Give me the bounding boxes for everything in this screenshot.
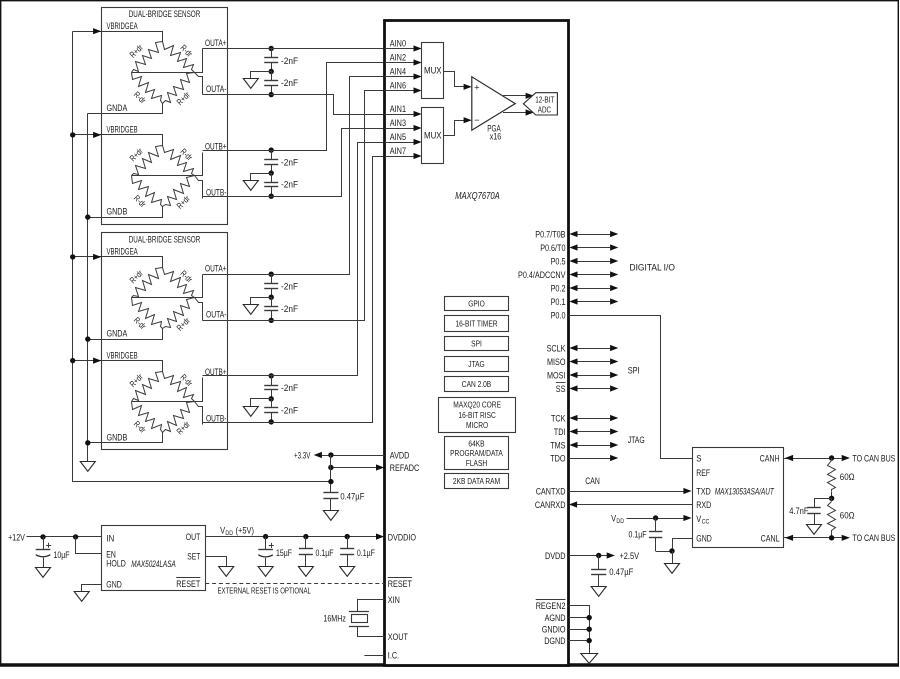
svg-text:(+5V): (+5V) xyxy=(236,525,255,536)
wire ground jog OUTB1 xyxy=(251,174,272,181)
svg-text:AIN3: AIN3 xyxy=(390,117,406,128)
svg-text:GND: GND xyxy=(696,532,712,543)
junction CANH xyxy=(829,455,834,460)
svg-text:P0.4/ADCCNV: P0.4/ADCCNV xyxy=(518,269,566,280)
junction VBRIDGEB2 xyxy=(70,358,75,363)
svg-text:TXD: TXD xyxy=(696,485,711,496)
svg-text:OUT: OUT xyxy=(186,531,201,542)
svg-text:DVDD: DVDD xyxy=(545,550,566,561)
svg-text:REF: REF xyxy=(696,467,710,478)
capacitor 0.1uF a xyxy=(305,537,307,549)
wire bridge right vertex to OUTB- xyxy=(195,176,203,199)
wire REGEN2/AGND/GNDIO/DGND to ground xyxy=(569,606,590,654)
block 12-BIT ADC xyxy=(523,93,557,115)
resistor R-dr (top-right) xyxy=(163,42,195,73)
junction CAN gnd xyxy=(669,548,674,553)
svg-text:12-BIT: 12-BIT xyxy=(535,94,555,104)
junction OUTB1+ xyxy=(269,147,274,152)
capacitor -2nF (OUTA2+) xyxy=(271,274,273,283)
wire CANTXD to TXD xyxy=(569,491,685,493)
svg-text:EXTERNAL RESET IS OPTIONAL: EXTERNAL RESET IS OPTIONAL xyxy=(218,586,312,596)
svg-text:-2nF: -2nF xyxy=(281,281,298,292)
resistor R+dr (top-left) xyxy=(132,268,163,298)
block MAXQ20 CORE 16-BIT RISC MICRO xyxy=(439,398,516,433)
svg-text:-2nF: -2nF xyxy=(281,77,298,88)
svg-text:DGND: DGND xyxy=(544,635,565,646)
wire PGA out lower xyxy=(503,112,526,114)
ground (4.7nF) xyxy=(807,525,822,535)
svg-text:-2nF: -2nF xyxy=(281,303,298,314)
regulator U4 MAX5024LASA box xyxy=(102,526,206,591)
junction DVDD cap xyxy=(596,553,601,558)
wire P0.2 digital I/O arrow xyxy=(577,288,610,290)
svg-text:MAXQ7670A: MAXQ7670A xyxy=(455,191,500,202)
junction 15uF xyxy=(263,534,268,539)
resistor R-dr (bottom-left) xyxy=(132,402,163,433)
wire bridge right vertex to OUTA- xyxy=(195,73,203,95)
svg-text:AIN6: AIN6 xyxy=(390,79,406,90)
svg-text:MICRO: MICRO xyxy=(466,420,488,430)
svg-text:GNDA: GNDA xyxy=(107,328,128,339)
capacitor -2nF (OUTA1+) xyxy=(271,49,273,58)
resistor R+dr (bottom-right) xyxy=(163,402,195,433)
wire cap to gnd junction xyxy=(656,551,672,553)
junction 0.1uF b xyxy=(345,534,350,539)
svg-text:0.1µF: 0.1µF xyxy=(629,529,647,540)
wire CANL to CAN bus xyxy=(784,537,842,539)
svg-text:GNDA: GNDA xyxy=(107,102,128,113)
resistor R+dr (top-left) xyxy=(132,372,163,402)
wire REFADC xyxy=(331,467,377,469)
resistor R-dr (bottom-left) xyxy=(132,176,163,207)
ground (OUTA1) xyxy=(243,79,258,89)
svg-text:OUTB-: OUTB- xyxy=(206,412,227,423)
wire I.C. stub xyxy=(364,655,384,657)
wire P0.5 digital I/O arrow xyxy=(577,261,610,263)
svg-text:CAN: CAN xyxy=(585,475,600,486)
svg-text:+2.5V: +2.5V xyxy=(620,550,640,561)
wire TDI arrow xyxy=(577,431,610,433)
crystal Y1 16MHz xyxy=(349,611,369,613)
wire SET to ground xyxy=(206,557,227,567)
mux U3 (lower MUX) xyxy=(422,108,444,164)
junction DGND xyxy=(587,638,592,643)
wire crystal to XOUT xyxy=(358,627,385,637)
ground (10uF) xyxy=(36,568,51,578)
capacitor -2nF (OUTB2-) xyxy=(271,399,273,408)
resistor R-dr (bottom-left) xyxy=(132,73,163,104)
op-amp U1 MAXQ7670A box xyxy=(385,21,569,666)
svg-text:+3.3V: +3.3V xyxy=(294,449,311,460)
svg-text:DUAL-BRIDGE SENSOR: DUAL-BRIDGE SENSOR xyxy=(129,234,201,245)
svg-text:FLASH: FLASH xyxy=(466,458,487,468)
svg-text:AGND: AGND xyxy=(545,612,566,623)
wire XIN to crystal xyxy=(358,600,385,612)
wire GND (5024) xyxy=(82,585,102,592)
wire bridge mid to OUTB+ xyxy=(132,153,203,176)
svg-text:TCK: TCK xyxy=(551,412,566,423)
wire OUT to DVDDIO (VDD +5V rail) xyxy=(205,536,377,538)
wire RXD to CANRXD xyxy=(577,504,693,506)
svg-text:-2nF: -2nF xyxy=(281,55,298,66)
svg-text:TO CAN BUS: TO CAN BUS xyxy=(852,532,895,543)
svg-text:64KB: 64KB xyxy=(468,439,484,449)
junction GNDB2 xyxy=(85,440,90,445)
svg-text:SCLK: SCLK xyxy=(547,342,566,353)
svg-text:GND: GND xyxy=(106,579,122,590)
wire P0.1 digital I/O arrow xyxy=(577,301,610,303)
svg-text:I.C.: I.C. xyxy=(388,650,399,661)
svg-text:AIN0: AIN0 xyxy=(390,37,406,48)
wire TMS arrow xyxy=(577,445,610,447)
wire VDD to VCC xyxy=(627,518,685,520)
svg-text:P0.7/T0B: P0.7/T0B xyxy=(535,228,565,239)
junction GNDA2 xyxy=(85,336,90,341)
junction OUTB2+ xyxy=(269,373,274,378)
wire bridge mid to OUTA+ xyxy=(132,275,203,298)
wire S2 OUTA+ to AIN4 xyxy=(203,77,385,275)
ground (OUTB1) xyxy=(243,181,258,191)
svg-text:REGEN2: REGEN2 xyxy=(536,600,566,611)
wire MISO arrow xyxy=(577,361,610,363)
svg-text:DIGITAL I/O: DIGITAL I/O xyxy=(630,261,675,272)
capacitor -2nF (OUTB1-) xyxy=(271,173,273,182)
ground (DVDD cap) xyxy=(591,587,606,597)
svg-text:AIN1: AIN1 xyxy=(390,103,406,114)
resistor R+dr (top-left) xyxy=(132,42,163,73)
wire GNDB xyxy=(88,207,163,218)
svg-text:P0.5: P0.5 xyxy=(551,255,566,266)
junction GNDIO xyxy=(587,627,592,632)
block 64KB PROGRAM/DATA FLASH xyxy=(445,437,509,470)
capacitor 0.47uF (DVDD) xyxy=(598,556,600,570)
svg-text:CANH: CANH xyxy=(760,452,780,463)
capacitor -2nF (OUTB1+) xyxy=(271,150,273,159)
wire split to 4.7nF xyxy=(815,499,832,508)
op-amp PGA x16 xyxy=(472,77,515,130)
svg-text:MOSI: MOSI xyxy=(547,369,566,380)
resistor R+dr (bottom-right) xyxy=(163,73,195,104)
ground (digital) xyxy=(581,654,598,664)
svg-text:VBRIDGEA: VBRIDGEA xyxy=(107,20,139,31)
svg-text:DD: DD xyxy=(225,530,233,537)
svg-text:JTAG: JTAG xyxy=(468,359,485,369)
svg-text:ADC: ADC xyxy=(538,104,551,114)
junction OUTA1+ xyxy=(269,46,274,51)
svg-text:SS: SS xyxy=(556,383,566,394)
junction 0.1uF a xyxy=(303,534,308,539)
junction OUTB2 mid xyxy=(269,396,274,401)
wire SS arrow xyxy=(577,388,610,390)
frame bottom heavy rule xyxy=(0,664,899,667)
capacitor 4.7nF xyxy=(807,507,820,509)
svg-text:XOUT: XOUT xyxy=(388,631,408,642)
svg-text:TO CAN BUS: TO CAN BUS xyxy=(852,452,895,463)
junction AGND xyxy=(587,615,592,620)
svg-text:0.1µF: 0.1µF xyxy=(357,547,375,558)
dual-bridge sensor 2 box xyxy=(102,233,228,450)
svg-text:+12V: +12V xyxy=(8,531,25,542)
junction OUTA2+ xyxy=(269,272,274,277)
wire S1 OUTA+ to AIN0 xyxy=(202,48,384,50)
svg-text:MUX: MUX xyxy=(424,131,442,141)
svg-text:S: S xyxy=(696,452,701,463)
wire MUX2 out to PGA - xyxy=(444,121,465,136)
svg-text:10µF: 10µF xyxy=(54,549,70,560)
wire P0.0 to CAN S xyxy=(569,316,693,459)
svg-text:MAX13053ASA/AUT: MAX13053ASA/AUT xyxy=(715,487,775,497)
svg-text:-2nF: -2nF xyxy=(281,156,298,167)
wire EN/HOLD xyxy=(76,537,102,554)
wire +3.3V bridge supply bus xyxy=(73,32,331,482)
wire MOSI arrow xyxy=(577,375,610,377)
dual-bridge sensor 1 box xyxy=(102,8,228,225)
svg-text:16MHz: 16MHz xyxy=(323,613,346,624)
svg-text:DD: DD xyxy=(616,518,624,525)
wire S1 OUTB+ to AIN2 xyxy=(203,63,385,151)
wire SCLK arrow xyxy=(577,348,610,350)
block SPI xyxy=(445,337,509,351)
block JTAG xyxy=(445,357,509,372)
svg-text:4.7nF: 4.7nF xyxy=(789,505,809,516)
svg-text:GNDB: GNDB xyxy=(107,431,128,442)
svg-text:MAX5024LASA: MAX5024LASA xyxy=(131,559,176,569)
svg-text:16-BIT TIMER: 16-BIT TIMER xyxy=(455,319,497,329)
junction VBRIDGEB1 xyxy=(70,132,75,137)
svg-text:OUTA-: OUTA- xyxy=(206,309,227,320)
ground (AVDD cap) xyxy=(323,511,338,521)
wire sensor ground bus xyxy=(87,114,89,462)
capacitor -2nF (OUTA2-) xyxy=(271,297,273,306)
wire CANH to CAN bus xyxy=(784,458,842,460)
resistor R-dr (top-right) xyxy=(163,146,195,176)
wire P0.4/ADCCNV digital I/O arrow xyxy=(577,274,610,276)
svg-text:CAN 2.0B: CAN 2.0B xyxy=(462,379,492,389)
junction GNDB1 xyxy=(85,214,90,219)
wire P0.6/T0 digital I/O arrow xyxy=(577,247,610,249)
svg-text:-2nF: -2nF xyxy=(281,179,298,190)
wire bridge right vertex to OUTA- xyxy=(195,298,203,321)
svg-text:0.47µF: 0.47µF xyxy=(340,490,364,501)
svg-text:60Ω: 60Ω xyxy=(840,471,855,482)
svg-text:TDO: TDO xyxy=(550,452,565,463)
wire bridge right vertex to OUTB- xyxy=(195,402,203,425)
wire VBRIDGEA 1 xyxy=(73,32,163,42)
wire PGA out upper xyxy=(503,95,526,97)
svg-text:RESET: RESET xyxy=(388,578,412,589)
resistor R-dr (top-right) xyxy=(163,268,195,298)
svg-text:OUTB+: OUTB+ xyxy=(205,141,227,152)
svg-text:RESET: RESET xyxy=(176,578,200,589)
svg-text:VBRIDGEB: VBRIDGEB xyxy=(107,349,138,360)
junction OUTB2- xyxy=(269,419,274,424)
resistor R+dr (top-left) xyxy=(132,146,163,176)
svg-text:CANRXD: CANRXD xyxy=(535,499,566,510)
resistor R-dr (top-right) xyxy=(163,372,195,402)
resistor 60ohm lower xyxy=(831,498,833,501)
transceiver U5 MAX13053ASA/AUT box xyxy=(693,448,784,548)
wire external reset (dashed) xyxy=(205,583,384,585)
junction OUTB1 mid xyxy=(269,170,274,175)
svg-text:CC: CC xyxy=(702,518,710,525)
svg-text:SET: SET xyxy=(187,551,200,562)
svg-text:OUTA-: OUTA- xyxy=(206,83,227,94)
svg-text:TDI: TDI xyxy=(554,426,566,437)
junction split termination xyxy=(829,496,834,501)
svg-text:CANL: CANL xyxy=(761,532,780,543)
junction OUTA2 mid xyxy=(269,295,274,300)
ground (OUTA2) xyxy=(243,305,258,315)
svg-text:AVDD: AVDD xyxy=(390,449,410,460)
svg-text:CANTXD: CANTXD xyxy=(536,485,566,496)
wire S1 OUTA- to AIN1 xyxy=(203,95,385,115)
wire P0.7/T0B digital I/O arrow xyxy=(577,234,610,236)
svg-text:16-BIT RISC: 16-BIT RISC xyxy=(458,410,495,420)
wire S2 OUTA- to AIN6 xyxy=(203,91,385,321)
junction AVDD xyxy=(328,452,333,457)
svg-text:RXD: RXD xyxy=(696,499,711,510)
junction REFADC xyxy=(328,465,333,470)
svg-text:OUTA+: OUTA+ xyxy=(205,263,227,274)
svg-text:x16: x16 xyxy=(490,131,502,141)
capacitor 0.47uF (AVDD) xyxy=(323,492,338,494)
wire GNDB xyxy=(88,433,163,443)
svg-text:TMS: TMS xyxy=(550,439,565,450)
resistor R+dr (bottom-right) xyxy=(163,176,195,207)
capacitor -2nF (OUTB2+) xyxy=(271,376,273,385)
junction VCC cap xyxy=(653,515,658,520)
block GPIO xyxy=(445,297,509,311)
wire AVDD to +3.3V xyxy=(321,455,385,457)
block 16-BIT TIMER xyxy=(445,316,509,332)
ground (sensor bus) xyxy=(80,462,95,472)
junction +3.3V feed xyxy=(328,479,333,484)
svg-text:SPI: SPI xyxy=(471,339,482,349)
svg-text:P0.2: P0.2 xyxy=(551,282,566,293)
ground (SET) xyxy=(219,567,234,577)
capacitor -2nF (OUTA1-) xyxy=(271,72,273,81)
resistor 60ohm upper xyxy=(831,458,833,461)
svg-text:OUTA+: OUTA+ xyxy=(205,37,227,48)
svg-text:P0.0: P0.0 xyxy=(551,309,566,320)
wire GNDA xyxy=(88,329,163,340)
junction CANL xyxy=(829,535,834,540)
resistor R+dr (bottom-right) xyxy=(163,298,195,329)
wire S2 OUTB+ to AIN5 xyxy=(203,143,385,376)
ground (15uF) xyxy=(258,567,273,577)
svg-text:AIN7: AIN7 xyxy=(390,145,406,156)
mux U2 (upper MUX) xyxy=(422,43,444,99)
svg-text:AIN4: AIN4 xyxy=(390,65,406,76)
wire bridge mid to OUTA+ xyxy=(132,49,203,73)
svg-text:0.1µF: 0.1µF xyxy=(316,547,334,558)
ground (0.1uF b) xyxy=(340,567,355,577)
junction OUTA2- xyxy=(269,318,274,323)
svg-text:60Ω: 60Ω xyxy=(840,509,855,520)
capacitor 0.1uF (CAN) xyxy=(655,518,657,532)
svg-text:JTAG: JTAG xyxy=(628,434,645,445)
wire TDO arrow xyxy=(569,458,611,460)
svg-text:AIN2: AIN2 xyxy=(390,51,406,62)
ground (OUTB2) xyxy=(243,407,258,417)
svg-text:IN: IN xyxy=(106,532,114,543)
svg-text:HOLD: HOLD xyxy=(106,558,126,569)
wire VBRIDGEB 2 xyxy=(73,361,163,372)
junction OUTA1 mid xyxy=(269,69,274,74)
svg-text:DVDDIO: DVDDIO xyxy=(388,531,416,542)
junction 10uF xyxy=(40,534,45,539)
wire DVDD to +2.5V xyxy=(569,555,609,557)
resistor R-dr (bottom-left) xyxy=(132,298,163,329)
svg-text:MISO: MISO xyxy=(547,356,566,367)
svg-text:15µF: 15µF xyxy=(276,547,292,558)
junction EN feed xyxy=(73,534,78,539)
wire bridge mid to OUTB+ xyxy=(132,378,203,402)
ground (CAN) xyxy=(665,564,680,574)
wire S1 OUTB- to AIN3 xyxy=(203,129,385,197)
svg-text:-2nF: -2nF xyxy=(281,404,298,415)
svg-text:MAXQ20 CORE: MAXQ20 CORE xyxy=(453,400,501,410)
svg-text:+: + xyxy=(474,82,479,92)
ground (0.1uF a) xyxy=(298,567,313,577)
junction OUTB1- xyxy=(269,194,274,199)
capacitor 15uF xyxy=(265,537,267,550)
svg-text:−: − xyxy=(474,115,479,125)
wire +3.3V rail down xyxy=(330,455,332,493)
ground (5024) xyxy=(74,592,89,602)
block CAN 2.0B xyxy=(445,377,509,392)
svg-text:GNDB: GNDB xyxy=(107,206,128,217)
junction OUTA1- xyxy=(269,92,274,97)
svg-text:PROGRAM/DATA: PROGRAM/DATA xyxy=(450,448,503,458)
svg-text:GNDIO: GNDIO xyxy=(542,624,566,635)
wire VBRIDGEA 2 xyxy=(73,257,163,268)
wire ground jog OUTA1 xyxy=(251,72,272,79)
wire VBRIDGEB 1 xyxy=(73,135,163,146)
svg-text:GPIO: GPIO xyxy=(468,299,485,309)
wire ground jog OUTB2 xyxy=(251,399,272,407)
svg-text:2KB DATA RAM: 2KB DATA RAM xyxy=(453,476,500,486)
svg-text:0.47µF: 0.47µF xyxy=(609,566,633,577)
wire +12V to IN xyxy=(27,536,102,538)
svg-text:REFADC: REFADC xyxy=(390,462,420,473)
svg-text:XIN: XIN xyxy=(388,594,400,605)
junction VBRIDGEA2 xyxy=(70,254,75,259)
wire MUX1 out to PGA + xyxy=(444,72,465,87)
svg-text:DUAL-BRIDGE SENSOR: DUAL-BRIDGE SENSOR xyxy=(129,8,201,19)
wire ground jog OUTA2 xyxy=(251,298,272,305)
svg-text:P0.1: P0.1 xyxy=(551,296,566,307)
svg-text:-2nF: -2nF xyxy=(281,382,298,393)
svg-text:VBRIDGEB: VBRIDGEB xyxy=(107,124,138,135)
capacitor 10uF xyxy=(43,537,45,550)
svg-text:MUX: MUX xyxy=(424,66,442,76)
svg-text:AIN5: AIN5 xyxy=(390,131,406,142)
svg-text:VBRIDGEA: VBRIDGEA xyxy=(107,246,139,257)
svg-text:P0.6/T0: P0.6/T0 xyxy=(540,242,565,253)
wire S2 OUTB- to AIN7 xyxy=(203,157,385,423)
wire TCK arrow xyxy=(577,418,610,420)
svg-text:SPI: SPI xyxy=(628,365,640,376)
block 2KB DATA RAM xyxy=(445,474,509,489)
wire GNDA xyxy=(88,104,163,114)
wire GND (CAN) xyxy=(673,539,693,552)
capacitor 0.1uF b xyxy=(347,537,349,549)
